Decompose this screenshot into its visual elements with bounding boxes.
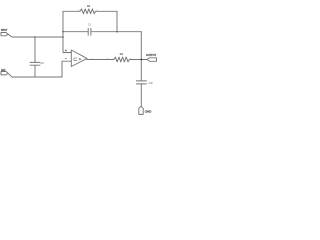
port INPUT xyxy=(1,33,8,36)
tick R1 pin2 xyxy=(96,10,98,11)
resistor R1 xyxy=(80,9,96,14)
wire op-amp output xyxy=(87,59,114,61)
svg-text:C3: C3 xyxy=(149,81,153,85)
port GND bottom xyxy=(139,106,143,114)
wire C2 top branch xyxy=(34,37,36,62)
svg-text:R1: R1 xyxy=(87,4,91,8)
op-amp plus sign xyxy=(65,49,67,51)
svg-text:OUTPUT: OUTPUT xyxy=(146,53,157,57)
tick R1 pin1 xyxy=(78,10,80,11)
wire input horizontal xyxy=(8,34,63,37)
junction node input/feedback xyxy=(62,36,64,38)
wire C2 bottom branch xyxy=(34,65,36,77)
capacitor C2 xyxy=(30,62,40,65)
svg-text:GND: GND xyxy=(145,109,152,113)
wire feedback right top vertical xyxy=(116,11,118,31)
capacitor C1 xyxy=(88,28,91,35)
tick R2 pin2 xyxy=(130,58,132,59)
resistor R2 xyxy=(114,57,130,62)
junction node mid row left xyxy=(62,31,64,33)
svg-text:GND: GND xyxy=(1,68,5,72)
capacitor C3 xyxy=(136,81,146,84)
svg-text:R2: R2 xyxy=(120,52,124,56)
wire top row left xyxy=(63,10,80,12)
wire ground rail xyxy=(8,73,62,77)
wire inverting input xyxy=(62,61,71,77)
wire mid row right xyxy=(91,31,141,33)
wire feedback right vertical xyxy=(140,32,142,60)
wire output right xyxy=(129,59,147,61)
tick R2 pin1 xyxy=(107,58,109,59)
port GND left xyxy=(1,72,8,75)
junction node R1/C1 xyxy=(116,31,118,33)
op-amp U1 xyxy=(71,50,87,67)
wire C3 top branch xyxy=(140,60,142,81)
wire top row right xyxy=(96,10,117,12)
port OUTPUT xyxy=(147,58,157,62)
op-amp internal symbol xyxy=(74,58,81,60)
op-amp minus sign xyxy=(65,58,67,60)
junction node input/C2 xyxy=(34,36,36,38)
wire mid row left xyxy=(63,31,88,33)
svg-text:INPUT: INPUT xyxy=(1,28,8,32)
wire feedback left vertical xyxy=(62,11,64,37)
svg-text:C1: C1 xyxy=(88,23,91,27)
junction node output xyxy=(140,59,142,61)
wire C3 to ground xyxy=(140,84,142,106)
svg-text:C2: C2 xyxy=(41,61,45,65)
tick op-amp output pin xyxy=(91,58,93,59)
wire noninverting input xyxy=(63,37,71,53)
